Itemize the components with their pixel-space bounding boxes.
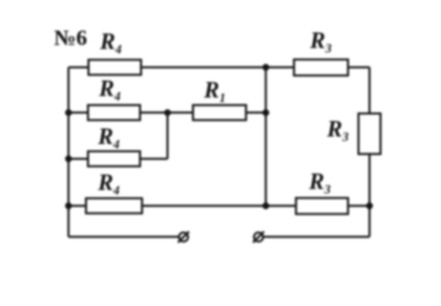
wire middle bus [265, 67, 267, 206]
node left bus row3 [65, 155, 72, 162]
svg-text:R4: R4 [97, 170, 120, 198]
terminal T1 [178, 232, 189, 243]
wire branch link [166, 113, 168, 159]
svg-text:R4: R4 [99, 29, 122, 57]
node left bus row2 [65, 109, 72, 116]
node middle bus R1 [262, 109, 269, 116]
terminal T2 [253, 232, 264, 243]
wire bottom left [69, 236, 179, 238]
wire left bus [67, 67, 69, 237]
node right bus bottom [366, 202, 373, 209]
resistor R3 right vertical [359, 114, 381, 155]
svg-text:R3: R3 [308, 169, 331, 197]
wire top row [69, 66, 370, 68]
node middle bus bottom [262, 202, 269, 209]
svg-text:R3: R3 [326, 117, 349, 145]
node mid R1 input [164, 109, 171, 116]
svg-text:R4: R4 [98, 76, 121, 104]
wire bottom right [264, 236, 370, 238]
svg-text:R4: R4 [97, 124, 120, 152]
svg-text:№6: №6 [54, 25, 87, 50]
resistor R4 first [89, 60, 142, 75]
node middle bus top [262, 64, 269, 71]
resistor R3 top [294, 60, 348, 76]
resistor R3 bottom [296, 198, 348, 214]
wire right bus [368, 67, 370, 237]
wire row 3 [69, 158, 168, 160]
resistor R4 third [88, 151, 140, 166]
resistor R4 second [88, 105, 140, 120]
svg-text:R1: R1 [203, 78, 226, 106]
resistor R1 [193, 105, 246, 120]
wire row 4 [69, 205, 370, 207]
svg-text:R3: R3 [309, 28, 332, 56]
wire row 2 [69, 112, 266, 114]
resistor R4 fourth [86, 198, 142, 213]
node left bus row4 [65, 202, 72, 209]
